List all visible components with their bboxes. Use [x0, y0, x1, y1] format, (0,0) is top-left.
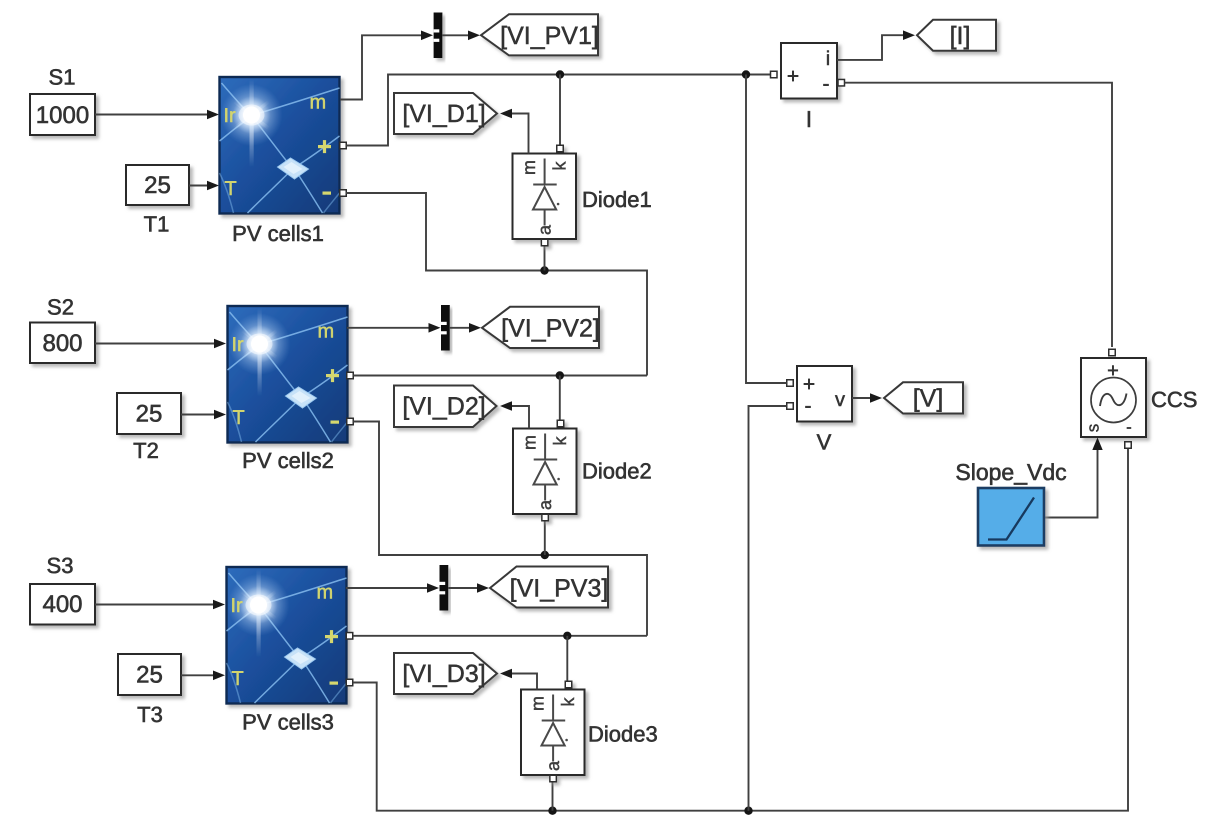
- wire PV cells2 m to mux M2: [347, 327, 429, 329]
- goto tag VI_PV1: [481, 14, 598, 55]
- port PV cells3 +: [346, 633, 353, 640]
- controlled current source CCS: [1081, 358, 1146, 437]
- svg-text:Slope_Vdc: Slope_Vdc: [955, 459, 1066, 485]
- constant T1 value 25: [126, 165, 189, 205]
- junction node V - on rail: [744, 807, 752, 815]
- svg-text:[V]: [V]: [913, 385, 944, 413]
- wire PV cells1 m to mux M1: [340, 35, 422, 99]
- wire T3 to PV cells3 T: [181, 674, 213, 676]
- mux M3: [440, 565, 449, 611]
- svg-text:400: 400: [42, 591, 82, 618]
- goto tag VI_PV3: [490, 567, 608, 608]
- wire Diode1 a to junction: [544, 246, 546, 271]
- arrowhead CCS s input: [1092, 438, 1102, 451]
- PV cells1 block: [220, 77, 340, 214]
- svg-text:s: s: [1084, 424, 1103, 433]
- diode Diode1: [513, 145, 577, 246]
- wire T2 to PV cells2 T: [181, 414, 214, 416]
- constant T3 value 25: [118, 654, 181, 695]
- current measurement block I: [781, 43, 837, 99]
- port I +: [771, 71, 778, 78]
- voltage measurement block V: [797, 366, 852, 422]
- port PV cells1 -: [340, 190, 347, 197]
- junction node to V +: [742, 70, 750, 78]
- svg-text:[VI_D2]: [VI_D2]: [402, 393, 485, 421]
- svg-text:Diode1: Diode1: [582, 187, 652, 212]
- svg-text:v: v: [835, 389, 845, 411]
- svg-text:T3: T3: [137, 702, 163, 727]
- constant S1 value 1000: [30, 94, 95, 135]
- junction node above Diode3 k: [563, 632, 571, 640]
- ramp source block Slope_Vdc: [978, 488, 1044, 546]
- port CCS top: [1109, 349, 1116, 356]
- goto tag VI_D1: [394, 93, 497, 134]
- svg-text:[I]: [I]: [950, 22, 971, 50]
- wire Diode2 m to goto VI_D2: [511, 406, 529, 429]
- junction node above Diode2 k: [556, 371, 564, 379]
- svg-text:-: -: [1126, 418, 1132, 437]
- wire mux M3 to goto VI_PV3: [448, 587, 477, 589]
- svg-text:I: I: [806, 106, 812, 132]
- svg-text:800: 800: [42, 330, 82, 357]
- junction node Diode1 anode: [540, 266, 548, 274]
- diode Diode2: [513, 420, 577, 521]
- port PV cells2 -: [347, 418, 354, 425]
- junction node Diode2 anode: [541, 551, 549, 559]
- wire Diode3 a to rail: [552, 782, 554, 811]
- svg-text:V: V: [817, 430, 832, 455]
- wire S3 to PV cells3 Ir: [95, 604, 213, 606]
- svg-text:[VI_D1]: [VI_D1]: [402, 100, 485, 128]
- port PV cells1 +: [340, 142, 347, 149]
- svg-text:1000: 1000: [36, 102, 89, 129]
- PV cells2 block: [228, 306, 348, 443]
- PV cells3 block: [227, 567, 347, 704]
- svg-text:Diode2: Diode2: [582, 459, 652, 484]
- svg-text:25: 25: [136, 662, 163, 689]
- svg-text:S2: S2: [47, 295, 74, 320]
- wire V v output to goto tag V: [852, 397, 870, 399]
- port I -: [838, 79, 845, 86]
- svg-text:PV cells2: PV cells2: [242, 448, 334, 473]
- wire PV cells2 + rail: [353, 375, 647, 377]
- svg-text:PV cells3: PV cells3: [242, 710, 334, 735]
- port PV cells3 -: [346, 679, 353, 686]
- diode Diode3: [521, 681, 585, 782]
- wire Diode3 m to goto VI_D3: [511, 674, 537, 690]
- port V -: [787, 403, 794, 410]
- svg-text:T2: T2: [133, 438, 159, 463]
- svg-text:PV cells1: PV cells1: [232, 221, 324, 246]
- wire PV cells3 - to bottom rail: [353, 449, 1128, 811]
- ramp curve inside Slope_Vdc: [988, 498, 1034, 540]
- port V +: [787, 380, 794, 387]
- svg-text:T1: T1: [144, 212, 170, 237]
- goto tag V: [884, 382, 963, 413]
- wire I - to CCS top: [845, 83, 1113, 347]
- mux M1: [434, 13, 443, 59]
- wire PV cells2 - to series node: [353, 422, 647, 636]
- port CCS bottom -: [1125, 442, 1132, 449]
- svg-text:[VI_PV3]: [VI_PV3]: [510, 575, 609, 603]
- constant S3 value 400: [30, 584, 95, 625]
- svg-text:-: -: [805, 395, 812, 418]
- wire PV cells3 + rail: [353, 635, 647, 637]
- svg-text:Diode3: Diode3: [588, 722, 658, 747]
- wire T1 to PV cells1 T: [189, 185, 207, 187]
- svg-text:25: 25: [136, 401, 163, 428]
- goto tag VI_PV2: [482, 307, 599, 348]
- svg-text:CCS: CCS: [1151, 387, 1197, 412]
- junction node Diode3 anode on rail: [548, 807, 556, 815]
- svg-text:-: -: [823, 73, 830, 96]
- svg-text:+: +: [803, 373, 815, 396]
- goto tag VI_D2: [394, 386, 497, 428]
- wire mux M2 to goto VI_PV2: [450, 327, 469, 329]
- svg-text:S3: S3: [47, 553, 74, 578]
- wire Diode2 a to junction: [544, 521, 546, 556]
- junction node above Diode1 k: [556, 70, 564, 78]
- constant S2 value 800: [30, 323, 95, 364]
- wire Slope_Vdc to CCS s input: [1045, 450, 1098, 518]
- svg-text:[VI_PV1]: [VI_PV1]: [500, 22, 599, 50]
- wire junction to Diode3 k: [566, 636, 568, 681]
- mux M2: [441, 305, 450, 351]
- constant T2 value 25: [117, 393, 181, 434]
- svg-text:S1: S1: [49, 65, 76, 90]
- wire S1 to PV cells1 Ir: [95, 114, 207, 116]
- wire S2 to PV cells2 Ir: [95, 343, 214, 345]
- port PV cells2 +: [347, 372, 354, 379]
- svg-text:[VI_D3]: [VI_D3]: [402, 660, 485, 688]
- svg-text:[VI_PV2]: [VI_PV2]: [501, 314, 600, 342]
- wire junction to Diode2 k: [559, 376, 561, 421]
- wire junction to V +: [746, 75, 787, 384]
- wire junction to Diode1 k: [559, 75, 561, 146]
- svg-text:25: 25: [144, 172, 171, 199]
- wire V - to bottom rail: [749, 406, 787, 811]
- goto tag I: [917, 20, 996, 51]
- goto tag VI_D3: [394, 653, 497, 694]
- wire PV cells1 + rail to I +: [346, 75, 770, 146]
- wire mux M1 to goto VI_PV1: [442, 34, 468, 36]
- wire I i output to goto tag I: [837, 35, 903, 60]
- svg-text:+: +: [787, 65, 799, 88]
- svg-text:i: i: [826, 48, 830, 70]
- wire PV cells3 m to mux M3: [346, 587, 428, 589]
- wire PV cells1 - to series node: [346, 193, 647, 376]
- wire Diode1 m to goto VI_D1: [511, 114, 529, 154]
